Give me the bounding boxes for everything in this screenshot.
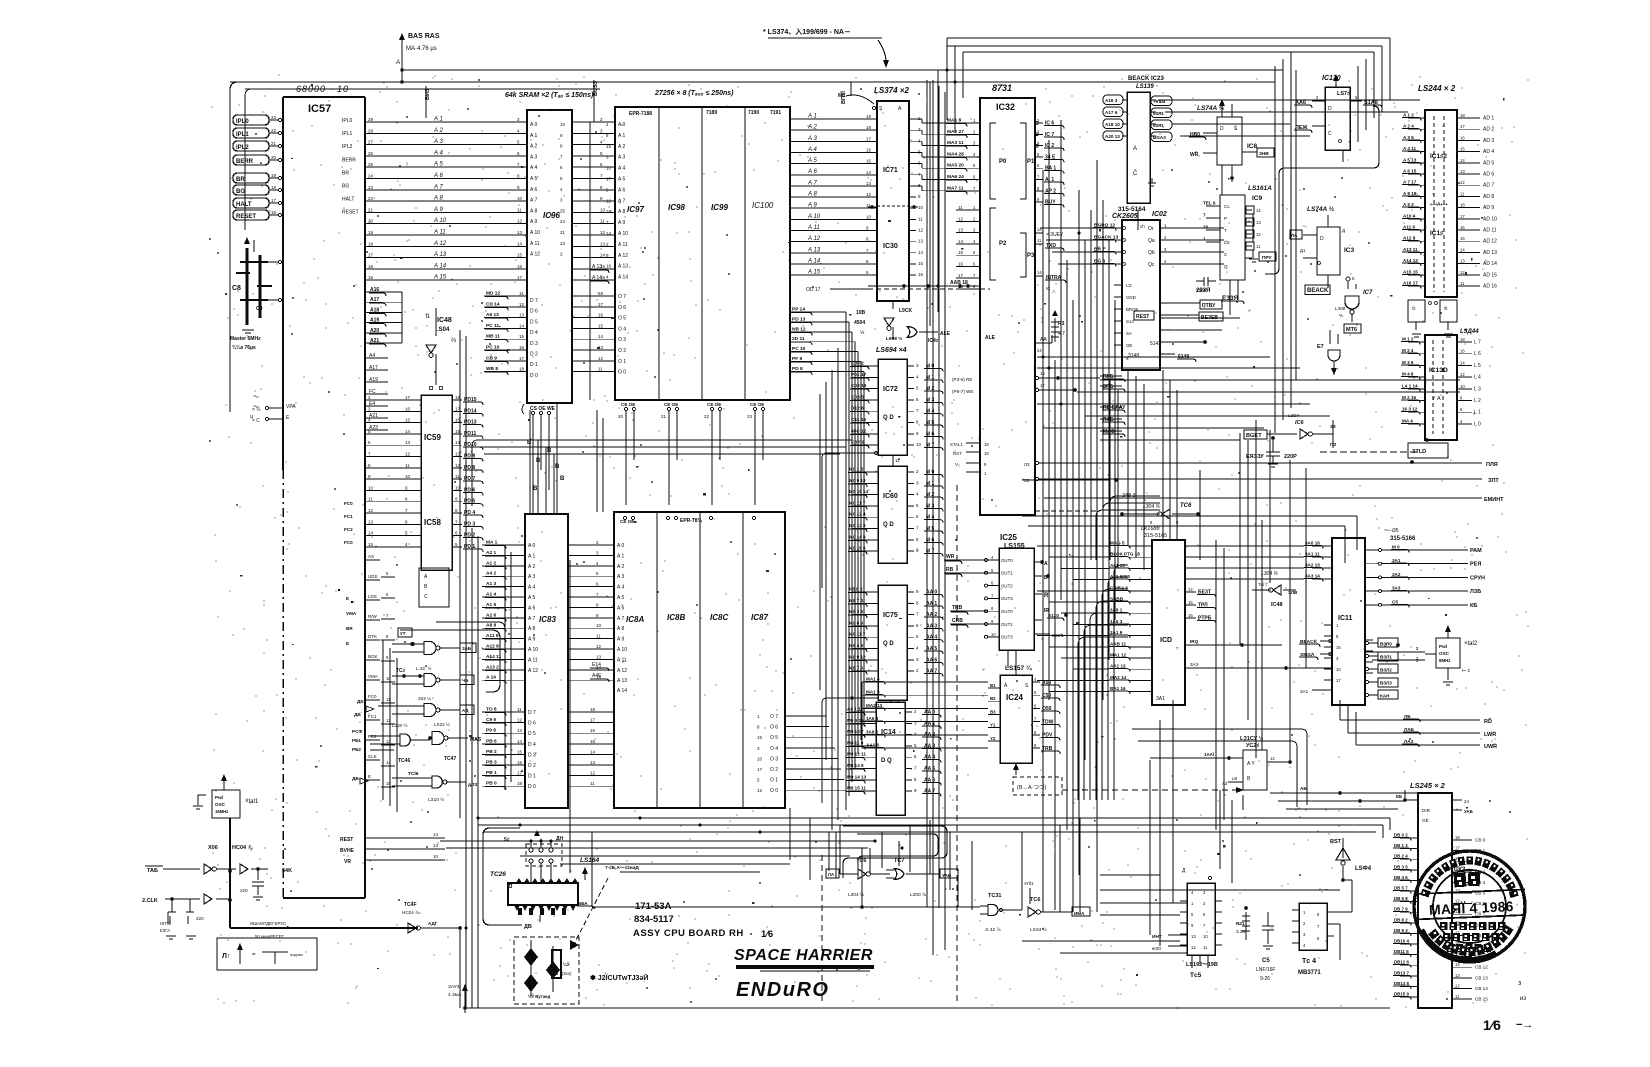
svg-text:OSC: OSC — [1439, 651, 1450, 656]
svg-text:DB13 7: DB13 7 — [1394, 970, 1409, 975]
svg-text:BR: BR — [342, 170, 349, 176]
svg-text:14: 14 — [600, 253, 606, 258]
svg-text:A 2: A 2 — [530, 144, 537, 150]
wire LS374 top hook — [838, 93, 874, 104]
or-gate IC4y L908 — [886, 308, 951, 344]
svg-text:21: 21 — [560, 230, 566, 235]
svg-text:A 4 11: A 4 11 — [1403, 146, 1417, 151]
IC U71 U30 LS374 body — [872, 86, 909, 301]
svg-text:C3P 9: C3P 9 — [851, 440, 865, 446]
svg-text:220P: 220P — [1284, 454, 1297, 460]
svg-text:14: 14 — [866, 170, 872, 175]
wire IC83 to ROM2 address rows — [568, 540, 614, 680]
svg-text:16: 16 — [1188, 613, 1193, 618]
svg-text:M 3 6: M 3 6 — [1402, 360, 1414, 365]
node IC57 VPA stubs — [252, 404, 296, 424]
svg-text:HC04 ⅞: HC04 ⅞ — [232, 845, 253, 851]
inverter IC4x 10B — [854, 300, 894, 339]
svg-text:DTK: DTK — [368, 634, 377, 639]
svg-text:A16 17: A16 17 — [1403, 281, 1418, 286]
svg-text:A 13: A 13 — [617, 678, 627, 684]
svg-text:A6 13: A6 13 — [486, 312, 499, 318]
svg-text:12: 12 — [1191, 945, 1196, 950]
svg-text:ch: ch — [1140, 224, 1145, 229]
svg-text:7190: 7190 — [748, 110, 759, 116]
svg-text:A 10: A 10 — [433, 218, 447, 224]
svg-text:M 0: M 0 — [1392, 545, 1400, 550]
wire y516 y526 rows — [1022, 478, 1357, 563]
wire upper right links — [1040, 100, 1420, 264]
wire LS374 right pin stubs — [909, 116, 946, 277]
svg-text:23: 23 — [271, 115, 277, 120]
svg-text:24: 24 — [560, 219, 566, 224]
svg-text:A 2: A 2 — [617, 564, 624, 570]
svg-text:P9 8: P9 8 — [486, 728, 496, 734]
svg-text:A13 11: A13 11 — [1403, 247, 1418, 252]
svg-text:СРУН: СРУН — [1470, 575, 1485, 581]
svg-text:12: 12 — [1460, 270, 1465, 275]
node LS374 mid taps — [868, 205, 918, 209]
wire IC32 right P1 labels — [1035, 118, 1064, 208]
wire RD LWR UWR lines — [1340, 700, 1497, 750]
svg-text:M0 12 4: M0 12 4 — [849, 512, 866, 517]
svg-text:M 4 8: M 4 8 — [1402, 372, 1414, 377]
svg-text:16: 16 — [1460, 225, 1465, 230]
svg-text:C02 16: C02 16 — [851, 383, 867, 389]
svg-text:CS OE WE: CS OE WE — [530, 406, 556, 412]
wire IC25 left OUT pins — [985, 555, 1014, 640]
svg-text:LB: LB — [1232, 776, 1237, 781]
svg-text:ЕЗГА: ЕЗГА — [160, 928, 170, 933]
svg-text:ЗЗ: ЗЗ — [1024, 478, 1030, 483]
svg-text:M8 11 9: M8 11 9 — [847, 740, 864, 745]
svg-text:1A6 3: 1A6 3 — [1110, 619, 1123, 624]
wire long bus to LS245 — [440, 818, 1390, 872]
svg-text:3.3K: 3.3K — [1236, 929, 1246, 934]
svg-text:MA1 4: MA1 4 — [866, 677, 880, 682]
svg-text:14: 14 — [386, 760, 391, 765]
svg-text:E7: E7 — [1317, 344, 1324, 350]
svg-text:3A3: 3A3 — [1392, 586, 1401, 591]
svg-text:A 6: A 6 — [807, 169, 817, 175]
svg-text:ТАБ: ТАБ — [147, 868, 158, 874]
wire bottom verticals — [570, 560, 1080, 912]
svg-text:AD 14: AD 14 — [1483, 261, 1497, 267]
node bundle hook labels — [1100, 374, 1126, 437]
svg-text:ПЛЯ: ПЛЯ — [1486, 462, 1498, 468]
svg-text:DB 4 6: DB 4 6 — [1394, 875, 1408, 880]
node ROM2 top labels — [620, 517, 756, 525]
wire top bus y46 — [947, 45, 1382, 47]
svg-text:SA: SA — [1126, 331, 1132, 336]
svg-text:22: 22 — [704, 414, 710, 419]
svg-text:16: 16 — [517, 264, 523, 269]
svg-text:UDS: UDS — [368, 574, 378, 579]
svg-text:IPL2: IPL2 — [236, 145, 249, 151]
svg-text:14: 14 — [1188, 587, 1193, 592]
svg-text:11: 11 — [517, 707, 522, 712]
svg-text:14: 14 — [1037, 270, 1042, 275]
svg-text:A 1: A 1 — [617, 553, 624, 559]
svg-text:ТC47: ТC47 — [444, 756, 456, 762]
svg-text:O 7: O 7 — [618, 294, 626, 300]
IC U75 latch body — [878, 585, 907, 700]
wire bottom right feeds — [1100, 890, 1299, 927]
wire ROM1-ROM2 inter verticals — [590, 122, 603, 512]
nand-gate G5 LS22 — [428, 721, 482, 762]
svg-text:3A2: 3A2 — [1392, 572, 1401, 577]
svg-text:A3: A3 — [1222, 781, 1228, 786]
svg-text:O 1: O 1 — [770, 778, 778, 784]
svg-text:13: 13 — [1256, 220, 1261, 225]
svg-text:EPR-78¾: EPR-78¾ — [680, 517, 703, 524]
svg-text:A 2: A 2 — [618, 144, 625, 150]
svg-text:A14 13: A14 13 — [1403, 258, 1418, 263]
svg-text:ASSY CPU BOARD RH: ASSY CPU BOARD RH — [633, 928, 744, 939]
wire IC24 right labels — [1032, 677, 1060, 754]
svg-text:LD: LD — [1126, 283, 1132, 288]
svg-text:14: 14 — [519, 323, 525, 328]
wire extra right verticals — [1103, 200, 1115, 700]
svg-text:A12 8: A12 8 — [486, 644, 499, 650]
svg-text:A2 6: A2 6 — [486, 612, 496, 618]
svg-text:14: 14 — [1460, 360, 1465, 365]
wire ICD left labels — [1109, 541, 1152, 695]
resistor R3 — [1051, 310, 1065, 342]
svg-text:11: 11 — [1037, 238, 1042, 243]
svg-text:LS74A ½: LS74A ½ — [1307, 205, 1335, 213]
svg-text:AD 4: AD 4 — [1483, 149, 1494, 155]
wire IC24 left pins — [988, 683, 1000, 741]
svg-text:AD 3: AD 3 — [1483, 138, 1494, 144]
svg-text:D 0: D 0 — [530, 373, 538, 379]
svg-text:A17: A17 — [370, 297, 379, 303]
svg-text:Y2: Y2 — [990, 736, 996, 741]
svg-text:11: 11 — [598, 367, 603, 372]
svg-text:DB 9 3: DB 9 3 — [1394, 928, 1408, 933]
svg-text:MA1 12: MA1 12 — [1110, 653, 1127, 658]
svg-text:M9 3 6: M9 3 6 — [849, 609, 863, 614]
svg-text:РЕЯ: РЕЯ — [1470, 562, 1481, 568]
svg-text:16: 16 — [368, 264, 374, 269]
svg-text:D 0: D 0 — [528, 784, 536, 790]
svg-text:IC32: IC32 — [996, 102, 1015, 112]
svg-text:A20 13: A20 13 — [1105, 134, 1120, 139]
wire mid-right horizontal bundle — [1037, 357, 1460, 440]
IC U2x LS125 body — [1240, 735, 1267, 790]
svg-text:18: 18 — [271, 185, 277, 190]
svg-text:ББА: ББА — [578, 901, 588, 906]
svg-text:A 4: A 4 — [530, 165, 537, 171]
svg-text:IC1♯: IC1♯ — [1430, 230, 1443, 237]
svg-text:×tal1: ×tal1 — [245, 799, 259, 805]
svg-text:SPACE HARRIER: SPACE HARRIER — [734, 947, 873, 964]
svg-text:D 7: D 7 — [530, 298, 538, 304]
svg-text:ВПУЇ: ВПУЇ — [840, 91, 847, 104]
svg-text:A 15: A 15 — [807, 270, 821, 276]
node trunk osc text — [250, 921, 286, 939]
svg-text:S14: S14 — [1126, 319, 1134, 324]
svg-text:3A1 9: 3A1 9 — [1110, 630, 1123, 635]
svg-text:A 3: A 3 — [530, 154, 537, 160]
svg-text:A 11: A 11 — [528, 657, 538, 663]
IC U9 LS161A body — [1220, 185, 1272, 280]
node IC32 port brackets — [990, 123, 1035, 280]
svg-text:15: 15 — [386, 781, 391, 786]
svg-text:MA3 11: MA3 11 — [947, 140, 964, 146]
svg-text:HALT: HALT — [342, 197, 354, 203]
svg-text:IC59: IC59 — [424, 433, 441, 442]
svg-text:ТC4F: ТC4F — [404, 902, 417, 908]
svg-text:3A8 1: 3A8 1 — [1110, 608, 1123, 613]
svg-text:M8 15 11: M8 15 11 — [847, 786, 866, 791]
svg-text:11: 11 — [368, 497, 373, 502]
svg-text:21: 21 — [661, 414, 667, 419]
svg-text:AD 16: AD 16 — [1483, 284, 1497, 290]
svg-text:O 6: O 6 — [770, 725, 778, 731]
svg-text:A1 5: A1 5 — [486, 602, 496, 608]
svg-text:20: 20 — [271, 155, 277, 160]
svg-text:15: 15 — [918, 261, 924, 266]
svg-text:BEACK̅ IC23: BEACK̅ IC23 — [1128, 75, 1164, 82]
svg-text:FC1: FC1 — [344, 514, 353, 519]
svg-text:A16 3: A16 3 — [1105, 98, 1118, 103]
node LS244 bottom gates — [1408, 300, 1457, 337]
wire x505 verticals — [505, 545, 511, 790]
svg-text:LS245 × 2: LS245 × 2 — [1410, 781, 1446, 790]
svg-text:7191: 7191 — [770, 110, 781, 116]
svg-text:A1 3: A1 3 — [486, 581, 496, 587]
svg-text:17: 17 — [519, 356, 525, 361]
svg-text:LS7♯: LS7♯ — [1337, 91, 1350, 97]
svg-text:C8: C8 — [232, 285, 241, 292]
svg-text:13: 13 — [519, 313, 525, 318]
svg-text:13: 13 — [918, 239, 924, 244]
svg-text:A 1: A 1 — [528, 553, 535, 559]
svg-text:L 5: L 5 — [1474, 363, 1481, 369]
wire IC02 right rows — [1160, 318, 1240, 354]
wire IC23 left labels — [1103, 95, 1127, 141]
node page number — [1483, 1017, 1533, 1033]
svg-text:P1: P1 — [1027, 159, 1035, 165]
svg-text:A 9: A 9 — [433, 207, 443, 213]
svg-text:Д1: Д1 — [1300, 248, 1306, 253]
svg-text:A 6 15: A 6 15 — [1403, 169, 1417, 174]
svg-text:IC48: IC48 — [437, 317, 452, 324]
svg-text:A 11: A 11 — [433, 230, 446, 236]
svg-text:A 8: A 8 — [528, 626, 535, 632]
svg-text:P2: P2 — [999, 241, 1007, 247]
wire IC14 right labels — [905, 709, 941, 797]
svg-text:A 4: A 4 — [528, 585, 535, 591]
svg-text:M8 9 12: M8 9 12 — [849, 654, 866, 659]
svg-text:24: 24 — [1464, 799, 1469, 804]
svg-text:A17 6: A17 6 — [1105, 110, 1118, 115]
svg-text:A17: A17 — [369, 365, 378, 371]
svg-text:15: 15 — [606, 144, 612, 149]
svg-text:A15 15: A15 15 — [1403, 269, 1418, 274]
IC U97-U100 ROM bank body — [615, 107, 790, 400]
svg-text:18: 18 — [984, 442, 989, 447]
svg-text:A 11: A 11 — [530, 241, 540, 247]
svg-text:MA 4: MA 4 — [1402, 418, 1413, 423]
svg-text:L 3: L 3 — [1474, 386, 1481, 392]
svg-text:68000 - 10: 68000 - 10 — [296, 84, 349, 94]
svg-text:22: 22 — [368, 196, 374, 201]
svg-text:A19: A19 — [370, 318, 379, 324]
svg-text:BERR: BERR — [236, 159, 254, 165]
svg-text:АДГ: АДГ — [428, 921, 438, 926]
svg-text:Тc5: Тc5 — [1190, 972, 1202, 979]
svg-text:10: 10 — [600, 207, 606, 212]
svg-text:×tal2: ×tal2 — [1464, 641, 1478, 647]
svg-text:Тc 4: Тc 4 — [1302, 958, 1316, 965]
svg-text:A 15: A 15 — [433, 275, 447, 281]
svg-text:ЗАБ: ЗАБ — [462, 646, 471, 651]
svg-text:GND: GND — [1126, 295, 1136, 300]
svg-text:УT: УT — [400, 631, 406, 636]
wire IC72 left labels — [850, 361, 878, 449]
svg-text:17: 17 — [590, 718, 596, 723]
svg-text:LS244 × 2: LS244 × 2 — [1418, 84, 1456, 93]
svg-text:10: 10 — [757, 756, 763, 761]
oscillator X1 module — [193, 774, 259, 818]
svg-text:25: 25 — [368, 162, 374, 167]
svg-text:A 14: A 14 — [618, 275, 628, 281]
svg-text:14: 14 — [596, 665, 602, 670]
svg-text:A 8: A 8 — [433, 196, 443, 202]
svg-text:OSC: OSC — [215, 802, 226, 807]
svg-text:L 7: L 7 — [1474, 340, 1481, 346]
svg-text:IC58: IC58 — [424, 518, 441, 527]
svg-text:LSЗ4 ½: LSЗ4 ½ — [1030, 926, 1047, 933]
svg-text:BGA3: BGA3 — [1153, 135, 1166, 140]
wire ICD right labels — [1185, 587, 1216, 624]
svg-text:17: 17 — [368, 253, 374, 258]
svg-text:11: 11 — [1460, 191, 1465, 196]
svg-text:A 3: A 3 — [807, 136, 817, 142]
IC U24 LS157 body — [1000, 664, 1032, 763]
svg-text:11: 11 — [1256, 244, 1261, 249]
svg-text:RB: RB — [946, 567, 954, 573]
svg-text:+5⇅B: +5⇅B — [1153, 98, 1166, 104]
node MAL arrow — [448, 984, 468, 1013]
svg-text:ТC6: ТC6 — [1180, 503, 1192, 509]
svg-text:IC75: IC75 — [883, 612, 898, 619]
svg-text:L4 1 14: L4 1 14 — [1402, 383, 1418, 388]
IC U59 latch body — [421, 395, 452, 570]
svg-text:B: B — [555, 464, 560, 470]
svg-text:14: 14 — [433, 832, 439, 837]
svg-text:Qa: Qa — [1148, 238, 1155, 244]
svg-text:1⁄6: 1⁄6 — [1483, 1017, 1501, 1033]
wire address bus IC96 to ROMs — [572, 117, 615, 280]
svg-text:O 4: O 4 — [770, 746, 778, 752]
svg-text:14: 14 — [1455, 962, 1460, 967]
svg-text:TEL 9: TEL 9 — [1203, 201, 1216, 206]
svg-text:M9 14 13: M9 14 13 — [847, 774, 867, 779]
wire LS245 left feed trunk — [1405, 545, 1418, 800]
svg-text:13: 13 — [1191, 934, 1196, 939]
svg-text:17: 17 — [517, 275, 523, 280]
svg-text:7: 7 — [1203, 213, 1206, 218]
svg-text:A 8 19: A 8 19 — [1403, 191, 1417, 196]
wire ROM1 chip selects down — [618, 402, 765, 505]
node ROM1 top row labels — [629, 110, 781, 117]
svg-text:УЛЇ1: УЛЇ1 — [1024, 880, 1034, 886]
svg-text:18: 18 — [598, 291, 604, 296]
svg-text:BVHE: BVHE — [340, 848, 355, 854]
svg-text:CB 9: CB 9 — [486, 355, 497, 361]
svg-text:MA1 9: MA1 9 — [866, 690, 880, 695]
svg-text:IC72: IC72 — [883, 386, 898, 393]
svg-text:OUT3: OUT3 — [1001, 596, 1013, 601]
node dashed service box — [514, 937, 579, 1004]
svg-text:12: 12 — [600, 230, 606, 235]
or-gate IC7b bottom — [886, 858, 958, 898]
wire IC83 top feeds — [527, 410, 560, 514]
wire dashed arrow line — [1062, 787, 1244, 793]
svg-text:OĒ: OĒ — [1422, 817, 1429, 823]
svg-text:OUT1: OUT1 — [1001, 571, 1013, 576]
svg-text:REST: REST — [340, 837, 353, 843]
svg-text:ӿІ30: ӿІ30 — [1152, 946, 1161, 952]
svg-text:13: 13 — [517, 230, 523, 235]
svg-text:11: 11 — [405, 463, 410, 468]
wire address bus A1-A15 IC57 to IC96 — [365, 117, 527, 281]
svg-text:L304 ⅞: L304 ⅞ — [1143, 504, 1161, 510]
svg-text:18: 18 — [1460, 337, 1465, 342]
svg-text:DB 5 7: DB 5 7 — [1394, 886, 1408, 891]
svg-text:14: 14 — [918, 250, 924, 255]
svg-text:¼Ў: ¼Ў — [563, 960, 570, 967]
svg-text:A 3: A 3 — [528, 574, 535, 580]
svg-text:29: 29 — [368, 117, 374, 122]
svg-text:17: 17 — [1336, 678, 1341, 683]
svg-text:⊢ c: ⊢ c — [1462, 667, 1471, 674]
svg-text:14: 14 — [598, 334, 604, 339]
svg-text:14: 14 — [606, 231, 612, 236]
IC U83 SRAM body — [525, 514, 568, 808]
svg-text:MAG 5: MAG 5 — [1110, 541, 1125, 546]
svg-text:PC 10: PC 10 — [486, 345, 500, 351]
svg-text:12: 12 — [1455, 983, 1460, 988]
svg-text:A4 2: A4 2 — [486, 571, 496, 577]
wire bottom row line — [577, 874, 980, 909]
svg-text:LЗД44: LЗД44 — [1460, 329, 1479, 335]
node IC13D bottom box — [1408, 439, 1448, 464]
svg-text:A 10: A 10 — [528, 647, 538, 653]
wire LS245 right labels — [1452, 835, 1488, 1002]
wire xtal2 feeds — [1365, 646, 1425, 663]
svg-text:DB 8 2: DB 8 2 — [1394, 917, 1408, 922]
svg-text:15: 15 — [757, 735, 763, 740]
svg-text:A 9: A 9 — [617, 637, 624, 643]
nand-gate G1 LS32 — [392, 628, 476, 655]
IC U26 body — [490, 871, 578, 922]
svg-text:18: 18 — [590, 707, 596, 712]
node PTRB RESET bold — [1128, 288, 1223, 362]
nand-gate G2 LS32 — [392, 665, 474, 687]
svg-text:BG: BG — [236, 189, 245, 195]
svg-text:22: 22 — [271, 128, 277, 133]
svg-text:VR: VR — [344, 859, 351, 865]
svg-text:M0 11 7: M0 11 7 — [849, 500, 866, 505]
svg-text:R21: R21 — [1236, 921, 1245, 926]
svg-text:10: 10 — [606, 166, 612, 171]
svg-text:ТС♯: ТС♯ — [396, 668, 406, 674]
svg-text:A 14: A 14 — [433, 263, 447, 269]
